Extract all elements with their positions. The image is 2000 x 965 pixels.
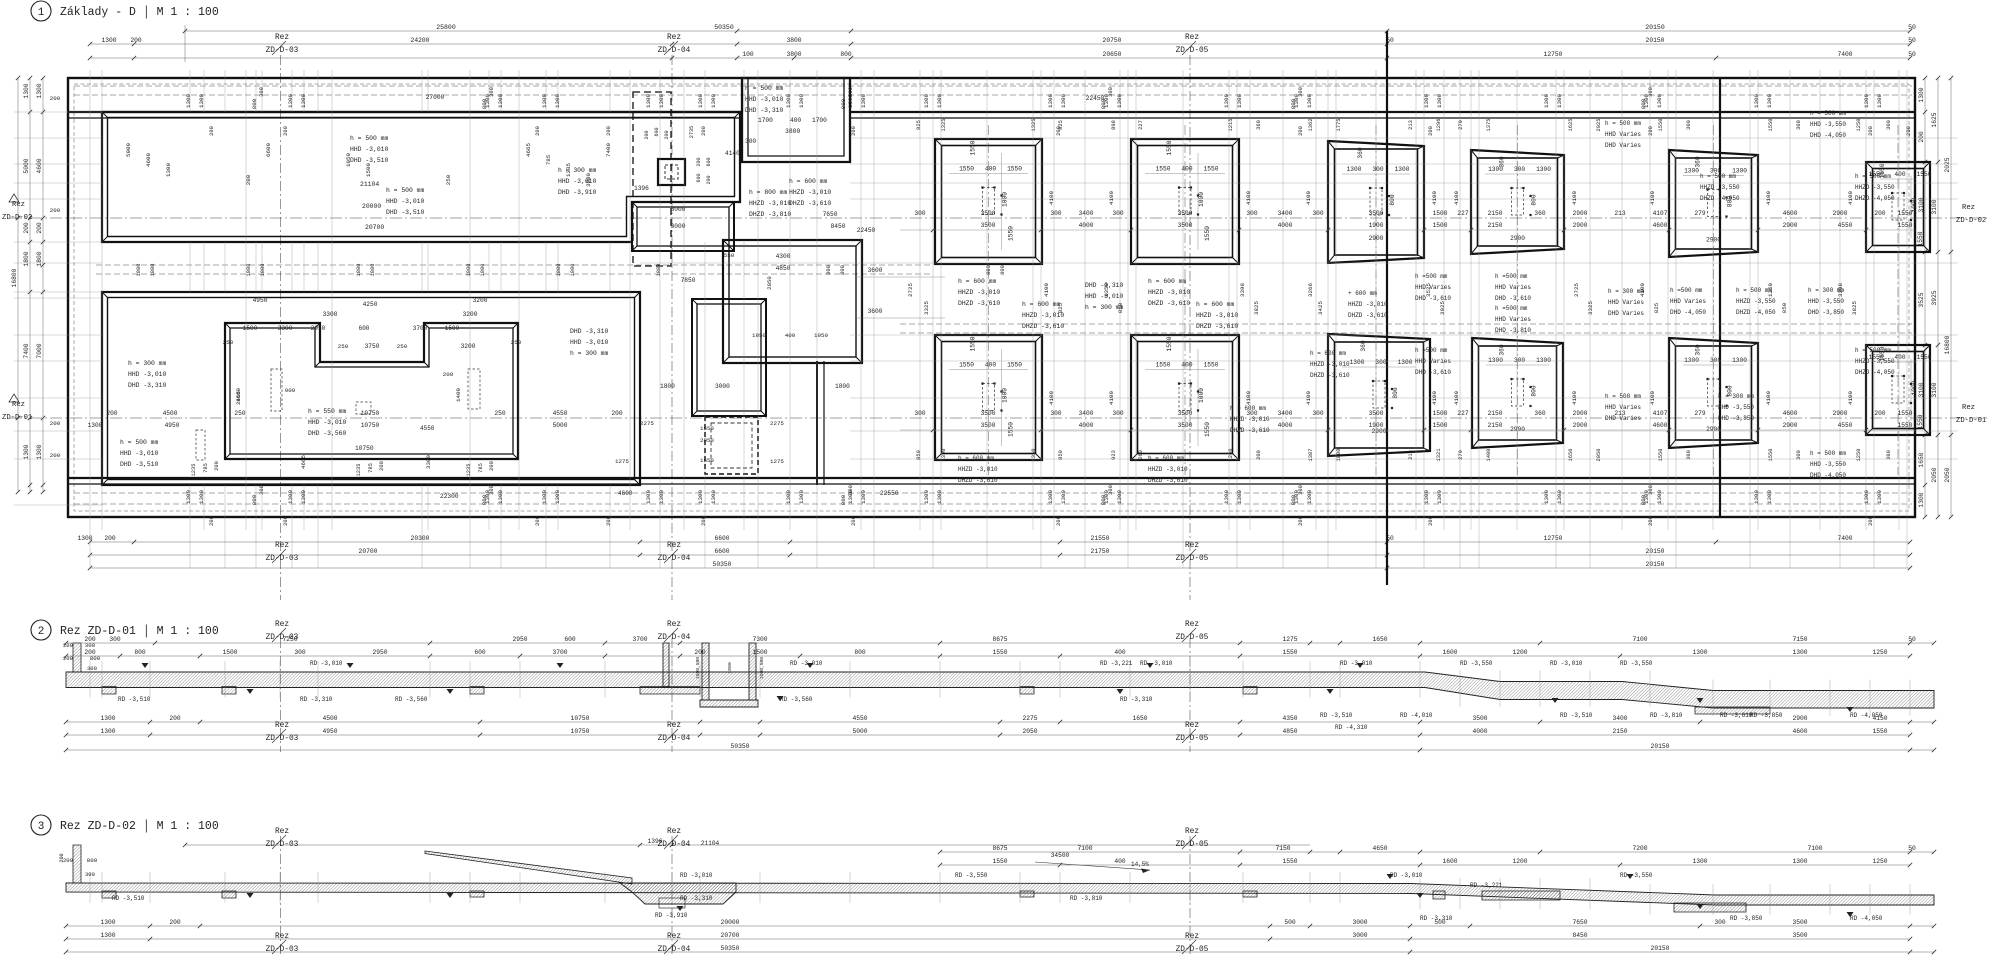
svg-text:300: 300 (1298, 87, 1304, 97)
svg-text:4100: 4100 (1571, 191, 1578, 205)
svg-text:1900: 1900 (1369, 222, 1384, 229)
svg-text:4850: 4850 (1282, 728, 1297, 735)
svg-text:7100: 7100 (1632, 636, 1647, 643)
svg-text:300: 300 (848, 485, 854, 495)
svg-text:20150: 20150 (1646, 548, 1665, 555)
svg-text:h = 500 mm: h = 500 mm (1605, 120, 1641, 127)
svg-text:7400: 7400 (1837, 51, 1852, 58)
svg-text:1250: 1250 (1856, 449, 1862, 462)
svg-text:1300: 1300 (198, 490, 205, 504)
svg-text:h = 600 mm: h = 600 mm (1148, 455, 1184, 462)
svg-text:1300: 1300 (185, 490, 192, 504)
svg-text:800: 800 (840, 98, 847, 109)
svg-text:ZD-D-03: ZD-D-03 (266, 555, 299, 563)
svg-text:1300: 1300 (710, 490, 717, 504)
svg-text:DHD -3,850: DHD -3,850 (1808, 309, 1844, 316)
svg-text:850: 850 (1781, 302, 1788, 313)
svg-text:20700: 20700 (721, 932, 740, 939)
svg-text:279: 279 (1458, 120, 1464, 130)
svg-text:800: 800 (1531, 385, 1538, 396)
svg-text:3500: 3500 (1792, 919, 1807, 926)
svg-text:200: 200 (209, 516, 215, 526)
svg-text:600: 600 (696, 173, 702, 182)
svg-text:1800: 1800 (150, 264, 156, 277)
svg-text:825: 825 (1058, 120, 1064, 130)
svg-text:6600: 6600 (714, 535, 729, 542)
svg-text:200: 200 (1874, 410, 1885, 417)
svg-text:4107: 4107 (1653, 410, 1668, 417)
svg-text:300: 300 (1050, 210, 1061, 217)
svg-text:1300: 1300 (88, 422, 103, 429)
svg-text:4107: 4107 (1653, 210, 1668, 217)
svg-text:1275: 1275 (770, 458, 784, 465)
svg-text:DHZD -4,050: DHZD -4,050 (1700, 195, 1740, 202)
svg-text:1500: 1500 (365, 163, 372, 177)
svg-text:4350: 4350 (1282, 715, 1297, 722)
svg-text:3200: 3200 (461, 343, 476, 350)
svg-text:1550: 1550 (1204, 422, 1211, 437)
svg-text:h = 500 mm: h = 500 mm (1810, 450, 1846, 457)
svg-text:1625: 1625 (1931, 112, 1938, 127)
svg-text:200: 200 (851, 516, 857, 526)
svg-text:500: 500 (1284, 919, 1296, 926)
svg-text:1500: 1500 (1433, 410, 1448, 417)
svg-text:3500: 3500 (1472, 715, 1487, 722)
svg-text:22450: 22450 (857, 227, 876, 234)
svg-text:10750: 10750 (355, 445, 374, 452)
svg-text:3750: 3750 (365, 343, 380, 350)
svg-text:HHZD -3,010: HHZD -3,010 (1022, 312, 1064, 319)
svg-text:2900: 2900 (1783, 222, 1798, 229)
svg-text:200: 200 (706, 175, 712, 184)
svg-text:4100: 4100 (1649, 191, 1656, 205)
svg-text:200: 200 (701, 516, 707, 526)
svg-text:DHD -3,610: DHD -3,610 (1495, 295, 1531, 302)
svg-text:2900: 2900 (1573, 422, 1588, 429)
svg-text:300: 300 (109, 636, 121, 643)
svg-text:4100: 4100 (1043, 283, 1050, 297)
svg-text:1300: 1300 (1543, 94, 1550, 108)
svg-text:1300: 1300 (1863, 490, 1870, 504)
svg-text:200: 200 (50, 420, 61, 427)
svg-text:360: 360 (1534, 210, 1545, 217)
svg-text:2150: 2150 (1488, 222, 1503, 229)
svg-text:1550: 1550 (1204, 362, 1219, 369)
svg-text:1800: 1800 (36, 251, 43, 266)
svg-text:1000: 1000 (1002, 388, 1009, 403)
svg-text:1300: 1300 (100, 728, 115, 735)
svg-text:600: 600 (564, 636, 576, 643)
svg-text:1300: 1300 (1556, 490, 1563, 504)
svg-text:2900: 2900 (1833, 210, 1848, 217)
svg-text:1700: 1700 (812, 117, 827, 124)
svg-text:250: 250 (338, 343, 349, 350)
svg-text:25800: 25800 (436, 24, 456, 31)
svg-text:HHD -3,010: HHD -3,010 (308, 419, 347, 426)
svg-text:Rez: Rez (1185, 828, 1199, 836)
svg-text:825: 825 (916, 120, 922, 130)
svg-text:300: 300 (87, 665, 98, 672)
svg-text:50350: 50350 (714, 24, 734, 31)
svg-text:RD -3,810: RD -3,810 (1650, 712, 1683, 719)
svg-text:1215: 1215 (1228, 119, 1234, 132)
svg-text:1300: 1300 (541, 94, 548, 108)
svg-text:1550: 1550 (970, 140, 977, 155)
svg-text:8675: 8675 (992, 636, 1007, 643)
svg-text:3266: 3266 (1307, 283, 1314, 297)
svg-text:1300: 1300 (1753, 94, 1760, 108)
svg-text:22550: 22550 (880, 490, 899, 497)
svg-text:4000: 4000 (1079, 422, 1094, 429)
svg-text:400: 400 (785, 332, 796, 339)
svg-text:1550: 1550 (992, 649, 1007, 656)
svg-text:RD -3,010: RD -3,010 (790, 660, 823, 667)
svg-text:ZD-D-05: ZD-D-05 (1176, 47, 1209, 55)
svg-text:HHD -3,550: HHD -3,550 (1718, 404, 1754, 411)
svg-text:1300: 1300 (1398, 359, 1413, 366)
svg-text:ZD-D-04: ZD-D-04 (658, 555, 691, 563)
svg-text:h =500 mm: h =500 mm (1495, 273, 1528, 280)
svg-text:227: 227 (1457, 210, 1468, 217)
svg-text:800: 800 (1100, 494, 1107, 505)
svg-text:2725: 2725 (907, 283, 914, 297)
svg-text:1550: 1550 (959, 166, 974, 173)
svg-text:10750: 10750 (571, 728, 590, 735)
svg-text:800: 800 (840, 51, 852, 58)
svg-text:200: 200 (1648, 516, 1654, 526)
svg-text:4100: 4100 (1245, 191, 1252, 205)
svg-text:200: 200 (694, 649, 706, 656)
svg-text:1300: 1300 (100, 715, 115, 722)
svg-text:RD -3,560: RD -3,560 (395, 696, 428, 703)
svg-text:4550: 4550 (1838, 222, 1853, 229)
svg-text:HHZD -3,010: HHZD -3,010 (1310, 361, 1350, 368)
svg-text:HHD Varies: HHD Varies (1605, 404, 1641, 411)
svg-text:3600: 3600 (868, 308, 883, 315)
svg-text:HHD -3,010: HHD -3,010 (350, 146, 389, 153)
svg-text:200: 200 (1256, 450, 1262, 460)
svg-text:HHZD -3,010: HHZD -3,010 (1196, 312, 1238, 319)
svg-text:800: 800 (251, 494, 258, 505)
svg-text:4100: 4100 (1431, 391, 1438, 405)
svg-text:1300: 1300 (1536, 166, 1551, 173)
svg-text:4950: 4950 (165, 422, 180, 429)
svg-text:1300: 1300 (1863, 94, 1870, 108)
svg-text:1300: 1300 (1766, 490, 1773, 504)
svg-text:Rez: Rez (275, 542, 289, 550)
svg-text:200: 200 (1868, 516, 1874, 526)
svg-text:1300: 1300 (77, 535, 92, 542)
svg-text:RD -3,310: RD -3,310 (1120, 696, 1153, 703)
svg-text:1300: 1300 (36, 444, 43, 459)
svg-text:RD -3,310: RD -3,310 (680, 895, 713, 902)
svg-text:h = 300 mm: h = 300 mm (128, 360, 167, 367)
svg-text:DHZD -3,610: DHZD -3,610 (958, 300, 1000, 307)
svg-text:2: 2 (38, 626, 45, 638)
svg-text:4100: 4100 (1765, 391, 1772, 405)
svg-text:1387: 1387 (1308, 449, 1314, 462)
svg-text:1550: 1550 (1658, 449, 1664, 462)
svg-text:h = 500 mm: h = 500 mm (745, 85, 784, 92)
svg-text:1550: 1550 (1898, 222, 1913, 229)
svg-text:DHD -3,510: DHD -3,510 (386, 209, 425, 216)
svg-text:1300: 1300 (165, 163, 172, 177)
svg-text:1800: 1800 (570, 264, 576, 277)
svg-text:1550: 1550 (1282, 649, 1297, 656)
svg-text:1800: 1800 (370, 264, 376, 277)
svg-text:1300: 1300 (1684, 357, 1699, 364)
svg-text:800: 800 (840, 265, 846, 275)
svg-text:h = 500 mm: h = 500 mm (1605, 393, 1641, 400)
svg-text:1500: 1500 (243, 325, 258, 332)
svg-text:1550: 1550 (1007, 166, 1022, 173)
svg-text:h = 300 mm: h = 300 mm (1718, 393, 1754, 400)
svg-text:1300: 1300 (1692, 649, 1707, 656)
svg-text:4600: 4600 (145, 153, 152, 167)
svg-text:4550: 4550 (420, 425, 435, 432)
svg-text:7100: 7100 (1807, 845, 1822, 852)
svg-text:200: 200 (63, 655, 74, 662)
svg-text:300: 300 (1686, 120, 1692, 130)
svg-text:HHD Varies: HHD Varies (1608, 299, 1644, 306)
svg-text:1296: 1296 (1436, 119, 1442, 132)
svg-text:16800: 16800 (11, 268, 18, 287)
svg-text:DHD Varies: DHD Varies (1605, 142, 1641, 149)
svg-text:h = 500 mm: h = 500 mm (1855, 347, 1891, 354)
svg-text:3525: 3525 (1918, 292, 1925, 307)
svg-text:1240: 1240 (1228, 449, 1234, 462)
svg-text:1650: 1650 (700, 457, 714, 464)
svg-text:800: 800 (1640, 494, 1647, 505)
svg-text:1300: 1300 (300, 490, 307, 504)
svg-text:1350: 1350 (1031, 449, 1037, 462)
svg-text:360: 360 (1695, 344, 1702, 355)
svg-text:1500: 1500 (445, 325, 460, 332)
svg-text:4100: 4100 (1305, 191, 1312, 205)
svg-text:2025: 2025 (1596, 119, 1602, 132)
svg-text:3425: 3425 (1317, 301, 1324, 315)
svg-text:4600: 4600 (36, 158, 43, 173)
svg-text:ZD-D-03: ZD-D-03 (266, 634, 299, 642)
svg-text:400: 400 (985, 362, 996, 369)
svg-text:HHD -3,550: HHD -3,550 (1810, 461, 1846, 468)
svg-text:1375: 1375 (1486, 119, 1492, 132)
svg-text:DHZD -3,610: DHZD -3,610 (789, 200, 831, 207)
svg-text:1000: 1000 (1002, 192, 1009, 207)
svg-text:h =500 mm: h =500 mm (1670, 287, 1703, 294)
svg-text:1300: 1300 (101, 37, 116, 44)
svg-text:1300: 1300 (1060, 490, 1067, 504)
svg-text:4100: 4100 (1305, 391, 1312, 405)
svg-text:1300: 1300 (1918, 87, 1925, 102)
svg-text:1800: 1800 (23, 251, 30, 266)
svg-text:1300: 1300 (1223, 94, 1230, 108)
svg-text:1500: 1500 (752, 649, 767, 656)
svg-text:200: 200 (50, 95, 61, 102)
svg-text:2950: 2950 (512, 636, 527, 643)
svg-text:7400: 7400 (23, 343, 30, 358)
svg-text:300: 300 (1312, 210, 1323, 217)
svg-text:1300: 1300 (1876, 94, 1883, 108)
svg-text:1300: 1300 (860, 490, 867, 504)
svg-text:1300: 1300 (287, 490, 294, 504)
svg-text:2050: 2050 (1596, 449, 1602, 462)
svg-text:200: 200 (851, 126, 857, 136)
svg-text:1500: 1500 (1433, 422, 1448, 429)
svg-text:h = 500 mm: h = 500 mm (1736, 287, 1772, 294)
svg-text:20700: 20700 (359, 548, 378, 555)
svg-text:4100: 4100 (1649, 391, 1656, 405)
svg-text:DHZD -3,610: DHZD -3,610 (1310, 372, 1350, 379)
svg-text:4600: 4600 (1783, 210, 1798, 217)
svg-text:h = 500 mm: h = 500 mm (1700, 173, 1736, 180)
svg-text:3100: 3100 (1931, 199, 1938, 214)
svg-text:5000: 5000 (852, 728, 867, 735)
svg-text:3700: 3700 (632, 636, 647, 643)
svg-text:27000: 27000 (426, 94, 445, 101)
svg-text:3500: 3500 (1369, 410, 1384, 417)
svg-text:1300: 1300 (1223, 490, 1230, 504)
svg-text:h = 300 mm: h = 300 mm (1085, 304, 1124, 311)
svg-text:2150: 2150 (1488, 422, 1503, 429)
svg-text:1550: 1550 (1166, 140, 1173, 155)
svg-text:DHZD -4,050: DHZD -4,050 (1855, 369, 1895, 376)
svg-text:21104: 21104 (360, 181, 379, 188)
svg-text:DHD -3,810: DHD -3,810 (1495, 327, 1531, 334)
svg-text:HHD Varies: HHD Varies (1495, 316, 1531, 323)
svg-text:1300: 1300 (785, 94, 792, 108)
svg-text:HHD -3,010: HHD -3,010 (745, 96, 784, 103)
svg-text:1650: 1650 (1372, 636, 1387, 643)
svg-text:DHD -3,310: DHD -3,310 (128, 382, 167, 389)
svg-text:1300: 1300 (36, 83, 43, 98)
svg-text:Rez: Rez (275, 621, 289, 629)
svg-text:1300: 1300 (936, 94, 943, 108)
svg-text:3500: 3500 (1178, 210, 1193, 217)
svg-text:4600: 4600 (618, 490, 633, 497)
svg-text:200: 200 (644, 130, 650, 139)
svg-text:300: 300 (1686, 450, 1692, 460)
svg-text:h = 500 mm: h = 500 mm (386, 187, 425, 194)
svg-text:2050: 2050 (766, 276, 773, 290)
svg-text:h = 500 mm: h = 500 mm (120, 439, 159, 446)
svg-text:4000: 4000 (1278, 422, 1293, 429)
svg-text:Rez: Rez (667, 828, 681, 836)
svg-text:1300: 1300 (1436, 490, 1443, 504)
svg-text:1400: 1400 (1486, 449, 1492, 462)
svg-text:1550: 1550 (1898, 422, 1913, 429)
svg-text:DHD -3,510: DHD -3,510 (120, 461, 159, 468)
svg-text:1300: 1300 (100, 932, 115, 939)
svg-text:1300: 1300 (1488, 357, 1503, 364)
svg-text:4550: 4550 (553, 410, 568, 417)
svg-text:800: 800 (854, 649, 866, 656)
svg-text:3400: 3400 (1079, 210, 1094, 217)
svg-text:1300: 1300 (1556, 94, 1563, 108)
svg-text:4100: 4100 (1048, 391, 1055, 405)
svg-text:ZD-D-04: ZD-D-04 (658, 47, 691, 55)
svg-text:2735: 2735 (689, 126, 695, 138)
svg-text:1700: 1700 (758, 117, 773, 124)
svg-text:h = 600 mm: h = 600 mm (1230, 405, 1266, 412)
svg-text:3500: 3500 (1792, 932, 1807, 939)
svg-text:1300: 1300 (1543, 490, 1550, 504)
svg-text:2275: 2275 (1022, 715, 1037, 722)
svg-text:7400: 7400 (605, 143, 612, 157)
svg-text:RD -3,310: RD -3,310 (300, 696, 333, 703)
svg-text:RD -4,050: RD -4,050 (1850, 915, 1883, 922)
svg-text:1321: 1321 (1436, 449, 1442, 462)
svg-text:300: 300 (914, 410, 925, 417)
svg-text:20300: 20300 (411, 535, 430, 542)
svg-text:1325: 1325 (1031, 119, 1037, 132)
svg-text:800: 800 (1640, 98, 1647, 109)
svg-text:4100: 4100 (1431, 191, 1438, 205)
svg-text:2900: 2900 (1573, 410, 1588, 417)
svg-text:1300: 1300 (697, 490, 704, 504)
svg-text:1350: 1350 (941, 449, 947, 462)
svg-text:3500: 3500 (981, 410, 996, 417)
svg-text:1300: 1300 (923, 94, 930, 108)
svg-text:1775: 1775 (1336, 119, 1342, 132)
svg-text:4550: 4550 (1838, 422, 1853, 429)
svg-text:785: 785 (478, 463, 484, 473)
svg-text:300: 300 (1050, 410, 1061, 417)
svg-text:200: 200 (1874, 210, 1885, 217)
svg-text:213: 213 (1408, 450, 1414, 460)
svg-text:1300: 1300 (697, 94, 704, 108)
svg-text:1300: 1300 (1047, 94, 1054, 108)
svg-text:1275: 1275 (615, 458, 629, 465)
svg-text:14,5%: 14,5% (1131, 861, 1149, 868)
svg-text:1275: 1275 (1282, 636, 1297, 643)
svg-text:4850: 4850 (776, 265, 791, 272)
svg-text:3700: 3700 (413, 325, 428, 332)
svg-text:2900: 2900 (1573, 210, 1588, 217)
svg-text:250: 250 (234, 410, 245, 417)
svg-text:DHZD -4,050: DHZD -4,050 (1736, 309, 1776, 316)
svg-text:HHD -3,550: HHD -3,550 (1810, 121, 1846, 128)
svg-text:1550: 1550 (1872, 728, 1887, 735)
svg-text:h = 600 mm: h = 600 mm (1148, 278, 1187, 285)
svg-text:3500: 3500 (1178, 222, 1193, 229)
svg-text:4250: 4250 (363, 301, 378, 308)
svg-text:1235: 1235 (356, 464, 362, 477)
svg-text:HHZD -3,010: HHZD -3,010 (958, 289, 1000, 296)
svg-text:213: 213 (1614, 210, 1625, 217)
svg-text:1550: 1550 (1917, 354, 1932, 361)
svg-text:1300: 1300 (1236, 94, 1243, 108)
svg-text:1650: 1650 (1568, 449, 1574, 462)
svg-text:1800: 1800 (136, 264, 142, 277)
svg-text:1300: 1300 (936, 490, 943, 504)
svg-text:4550: 4550 (852, 715, 867, 722)
svg-text:h = 550 mm: h = 550 mm (308, 408, 347, 415)
svg-text:200: 200 (63, 642, 74, 649)
svg-text:2150: 2150 (1488, 410, 1503, 417)
svg-text:3925: 3925 (1931, 290, 1938, 305)
svg-text:Rez: Rez (667, 933, 681, 941)
svg-text:HHD -3,550: HHD -3,550 (1808, 298, 1844, 305)
svg-text:7300: 7300 (752, 636, 767, 643)
svg-text:1300: 1300 (1350, 359, 1365, 366)
svg-text:2900: 2900 (1833, 410, 1848, 417)
svg-text:800: 800 (1000, 265, 1006, 275)
svg-text:ZD-D-05: ZD-D-05 (1176, 735, 1209, 743)
svg-text:2275: 2275 (640, 420, 654, 427)
svg-text:300: 300 (1375, 359, 1386, 366)
svg-text:200: 200 (606, 126, 612, 136)
